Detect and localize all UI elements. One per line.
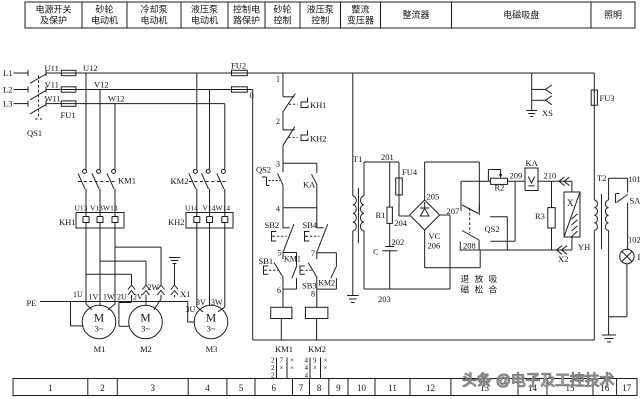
fuse FU1 (3x): [61, 70, 76, 75]
KM2 contact cross-reference table: [309, 358, 311, 379]
svg-text:R2: R2: [495, 183, 505, 193]
wire V12 bus: [76, 89, 232, 91]
wire X1 to M2: [131, 297, 133, 303]
thermal overload KH2: [186, 213, 233, 229]
svg-text:L3: L3: [3, 99, 12, 109]
svg-text:XS: XS: [542, 108, 553, 118]
svg-text:QS2: QS2: [485, 224, 500, 234]
svg-text:203: 203: [378, 294, 391, 304]
contact KM1 auxiliary (self-hold): [283, 252, 297, 254]
svg-text:M3: M3: [206, 344, 218, 354]
svg-text:204: 204: [394, 218, 408, 228]
connector X1 chuck pins (row): [559, 177, 565, 186]
svg-text:12: 12: [426, 383, 435, 393]
wire T1 primary feed: [352, 73, 354, 196]
motor M3: [194, 305, 228, 339]
wire 101: [608, 178, 610, 200]
svg-text:1W: 1W: [103, 293, 115, 302]
wire KM2 phase drops: [196, 73, 198, 169]
wire 0 return line: [247, 89, 252, 91]
svg-text:×: ×: [324, 364, 328, 372]
QS2 fixed stubs: [490, 216, 507, 218]
svg-text:208: 208: [463, 241, 476, 251]
connector X1 pins: [128, 285, 135, 290]
rheostat R2: [491, 178, 508, 184]
svg-text:3~: 3~: [141, 324, 150, 334]
svg-text:变压器: 变压器: [347, 15, 374, 26]
wire 203: [363, 231, 365, 289]
wire U12 bus: [76, 72, 232, 74]
svg-text:SB1: SB1: [259, 256, 274, 266]
svg-text:路保护: 路保护: [233, 15, 260, 26]
wire VC right corner to 203: [440, 214, 450, 216]
svg-text:3~: 3~: [95, 324, 104, 334]
wire T2 primary to 0 rail: [593, 230, 595, 340]
svg-text:冷却泵: 冷却泵: [140, 4, 167, 15]
svg-text:FU2: FU2: [231, 61, 246, 71]
svg-text:液压泵: 液压泵: [307, 4, 334, 15]
wire M3 feeds: [196, 228, 198, 307]
svg-text:电动机: 电动机: [140, 15, 167, 26]
svg-text:L1: L1: [3, 68, 12, 78]
wire 201: [363, 162, 365, 196]
svg-text:10: 10: [357, 383, 367, 393]
coil KM1: [282, 289, 284, 307]
wire 205 DC+: [424, 162, 426, 200]
svg-text:SB2: SB2: [265, 220, 280, 230]
wire KM1 phase drops: [85, 73, 87, 169]
wire 0 bottom rail: [253, 339, 595, 341]
ground (X1 PE): [174, 264, 176, 286]
svg-text:3~: 3~: [207, 324, 216, 334]
label 202: [389, 223, 391, 246]
svg-text:×: ×: [313, 364, 317, 372]
svg-text:11: 11: [388, 383, 397, 393]
svg-text:SB4: SB4: [303, 220, 318, 230]
svg-text:KM2: KM2: [308, 344, 326, 354]
svg-text:电动机: 电动机: [91, 15, 118, 26]
svg-text:T2: T2: [597, 173, 606, 183]
svg-text:6: 6: [277, 286, 281, 295]
ground (XS): [526, 110, 537, 112]
wire main control line (U12 continuation): [247, 72, 594, 74]
svg-text:V11: V11: [45, 80, 59, 90]
svg-text:209: 209: [510, 171, 523, 181]
svg-text:整流器: 整流器: [402, 9, 429, 20]
svg-text:W13: W13: [103, 204, 118, 213]
svg-text:2: 2: [100, 383, 105, 393]
svg-text:PE: PE: [27, 298, 37, 308]
svg-text:电磁吸盘: 电磁吸盘: [503, 9, 539, 20]
svg-text:U12: U12: [83, 63, 98, 73]
svg-text:4: 4: [205, 383, 210, 393]
wire lamp return: [626, 264, 628, 317]
wire chuck bottom rail: [460, 249, 572, 251]
bottom column-number strip: [13, 379, 637, 396]
wire node1 drop: [282, 73, 284, 97]
rectifier VC (bridge): [410, 200, 440, 230]
svg-text:×: ×: [290, 364, 294, 372]
switch SA: [627, 178, 629, 192]
svg-text:W14: W14: [216, 204, 231, 213]
svg-text:R3: R3: [535, 211, 545, 221]
svg-text:KH1: KH1: [59, 217, 76, 227]
svg-text:3: 3: [151, 383, 156, 393]
contactor KM1 main contacts: [83, 169, 87, 173]
svg-text:SA: SA: [630, 196, 640, 206]
wire chuck row 209/210: [461, 180, 491, 182]
coil KM2: [316, 289, 318, 307]
wire taps to connector X1: [115, 246, 161, 248]
svg-text:0: 0: [250, 90, 254, 100]
svg-text:101: 101: [628, 174, 640, 184]
capacitor C: [385, 246, 394, 248]
svg-text:102: 102: [628, 235, 640, 245]
svg-text:201: 201: [381, 152, 394, 162]
svg-text:207: 207: [447, 206, 460, 216]
wire L2 entry: [14, 89, 29, 91]
lamp EL: [620, 249, 634, 263]
svg-text:及保护: 及保护: [40, 15, 67, 26]
svg-text:5: 5: [239, 383, 244, 393]
svg-text:KH1: KH1: [310, 100, 327, 110]
svg-text:2: 2: [276, 117, 280, 126]
svg-text:M1: M1: [94, 344, 106, 354]
resistor R3: [551, 181, 553, 207]
svg-text:205: 205: [427, 192, 440, 202]
svg-text:砂轮: 砂轮: [273, 4, 291, 15]
svg-text:R1: R1: [376, 210, 386, 220]
switch QS1 (3-pole knife switch): [30, 74, 46, 83]
contactor KM2 main contacts: [193, 169, 197, 173]
watermark 头条@电子及工控技术: [462, 369, 640, 390]
svg-text:U14: U14: [185, 204, 198, 213]
svg-text:FU3: FU3: [600, 93, 615, 103]
contact KH1 NC: [283, 96, 295, 98]
svg-text:控制: 控制: [311, 15, 329, 26]
wire M1 feeds: [85, 228, 87, 304]
KM1 contact cross-reference table: [276, 358, 278, 379]
svg-text:KA: KA: [526, 158, 539, 168]
svg-text:2U: 2U: [117, 293, 127, 302]
svg-text:206: 206: [428, 241, 441, 251]
svg-text:×: ×: [280, 364, 284, 372]
svg-text:整流: 整流: [351, 4, 369, 15]
svg-text:3: 3: [276, 160, 280, 169]
svg-text:砂轮: 砂轮: [95, 4, 113, 15]
svg-text:1: 1: [48, 383, 53, 393]
svg-text:KM1: KM1: [118, 176, 136, 186]
svg-text:X2: X2: [558, 254, 568, 264]
svg-text:1: 1: [276, 75, 280, 84]
svg-text:3V: 3V: [196, 298, 206, 307]
svg-text:1U: 1U: [73, 290, 83, 299]
ground (T1): [347, 295, 359, 297]
thermal overload KH1: [76, 213, 124, 229]
svg-text:5: 5: [278, 249, 282, 258]
svg-text:KA: KA: [303, 180, 316, 190]
motor M1: [82, 305, 116, 339]
svg-text:210: 210: [544, 171, 557, 181]
connector X2 pins: [557, 246, 563, 255]
resistor R1: [389, 162, 391, 207]
svg-text:7: 7: [311, 249, 315, 258]
svg-text:4: 4: [276, 205, 280, 214]
svg-text:KM2: KM2: [318, 278, 335, 287]
header function-zone table: [25, 2, 635, 28]
svg-text:W12: W12: [108, 94, 125, 104]
svg-text:8: 8: [311, 290, 315, 299]
contact KH2 NC: [283, 129, 295, 131]
svg-text:X1: X1: [180, 289, 190, 299]
svg-text:退 放 吸: 退 放 吸: [461, 273, 499, 284]
svg-text:KM1: KM1: [284, 255, 301, 264]
svg-text:控制电: 控制电: [233, 4, 260, 15]
wire L3 entry: [14, 103, 29, 105]
svg-text:M2: M2: [140, 344, 152, 354]
motor M2: [129, 305, 163, 339]
svg-text:9: 9: [336, 383, 341, 393]
wire W12 bus: [76, 103, 225, 105]
svg-text:磁 松 合: 磁 松 合: [461, 284, 499, 295]
svg-text:电源开关: 电源开关: [35, 4, 71, 15]
svg-text:KM1: KM1: [275, 344, 293, 354]
svg-text:FU1: FU1: [61, 110, 76, 120]
svg-text:V13: V13: [90, 204, 103, 213]
svg-text:V14: V14: [203, 204, 216, 213]
svg-text:L2: L2: [3, 85, 12, 95]
svg-text:8: 8: [317, 383, 322, 393]
svg-text:202: 202: [392, 237, 405, 247]
svg-text:6: 6: [272, 383, 277, 393]
svg-text:KM2: KM2: [171, 176, 189, 186]
svg-text:1V: 1V: [89, 293, 99, 302]
svg-text:KH2: KH2: [310, 134, 327, 144]
switch QS2 contact 208: [462, 231, 479, 241]
svg-text:控制: 控制: [273, 15, 291, 26]
svg-text:QS1: QS1: [27, 128, 42, 138]
svg-text:2V: 2V: [133, 293, 143, 302]
electromagnetic chuck YH: [571, 181, 573, 192]
svg-text:液压泵: 液压泵: [191, 4, 218, 15]
svg-text:照明: 照明: [604, 10, 622, 20]
svg-text:V12: V12: [94, 80, 109, 90]
svg-text:T1: T1: [353, 154, 362, 164]
svg-text:QS2: QS2: [256, 165, 271, 175]
svg-text:VC: VC: [429, 231, 441, 241]
contact KM2 auxiliary (self-hold): [317, 252, 337, 254]
fuse FU3: [593, 73, 595, 90]
svg-text:7: 7: [299, 383, 304, 393]
QS2 linkage: [469, 208, 471, 233]
svg-text:2: 2: [271, 372, 275, 380]
svg-text:YH: YH: [578, 242, 590, 252]
wire L1 entry: [14, 72, 29, 74]
svg-text:2W: 2W: [148, 283, 160, 292]
svg-text:C: C: [373, 247, 379, 257]
wire PE bus: [40, 301, 188, 303]
svg-text:U11: U11: [45, 63, 59, 73]
svg-text:W11: W11: [45, 94, 61, 104]
wire 206 DC-: [424, 230, 426, 268]
relay contact KA (NO): [316, 163, 318, 173]
socket XS: [531, 73, 533, 110]
svg-text:4: 4: [305, 372, 309, 380]
svg-text:U13: U13: [75, 204, 88, 213]
svg-text:电动机: 电动机: [191, 15, 218, 26]
ground (T2/EL): [602, 334, 616, 336]
svg-text:X: X: [567, 198, 574, 208]
svg-text:3U: 3U: [186, 305, 196, 314]
svg-text:FU4: FU4: [402, 167, 418, 177]
wire T1 primary to ground: [352, 231, 354, 295]
svg-text:KH2: KH2: [168, 217, 185, 227]
